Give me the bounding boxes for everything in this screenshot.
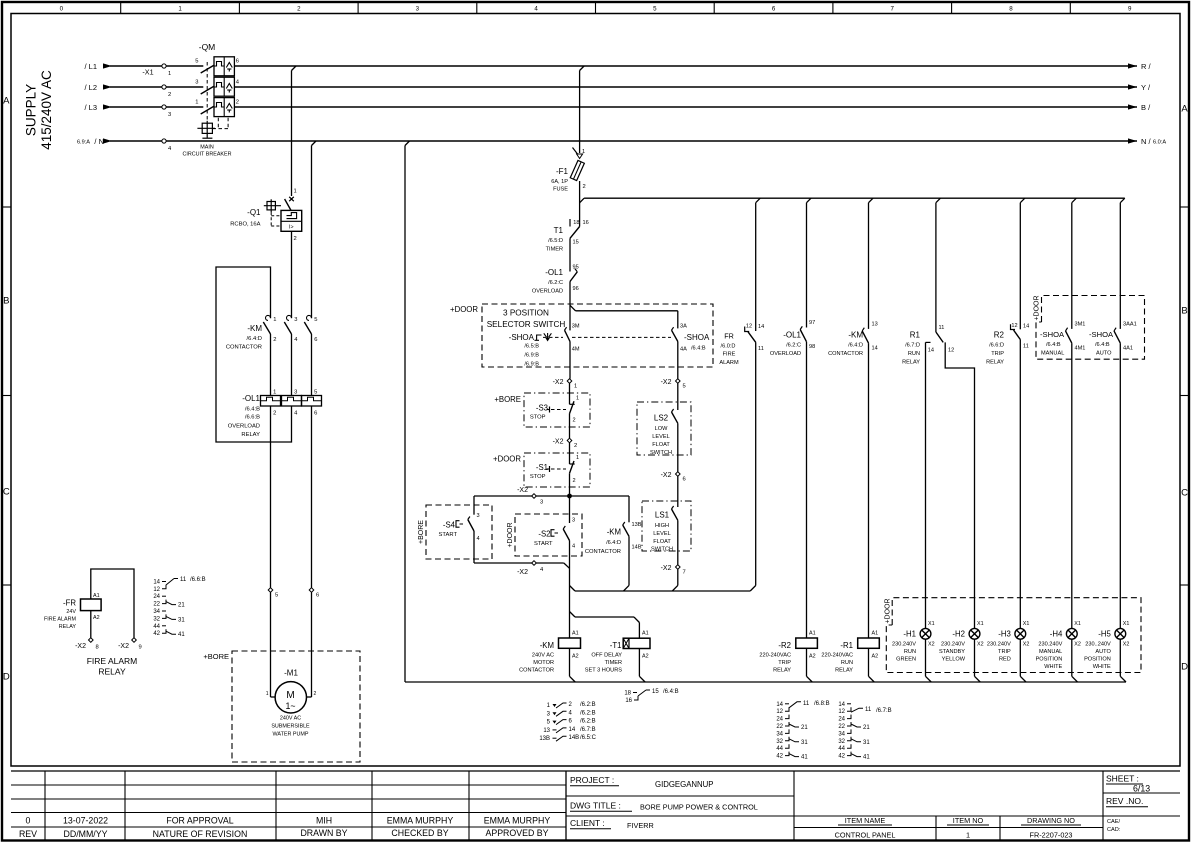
control top bus <box>584 197 1125 199</box>
control bus tap at fuse <box>580 198 585 203</box>
wire L1 <box>110 65 1137 67</box>
svg-text:/ L3: / L3 <box>84 103 97 112</box>
svg-text:230.240V: 230.240V <box>1038 642 1062 648</box>
location box LS1 <box>642 501 691 551</box>
svg-text:/6.4:D: /6.4:D <box>606 540 621 546</box>
svg-text:SWITCH: SWITCH <box>650 450 672 456</box>
svg-text:MIH: MIH <box>316 816 332 826</box>
label T1 timer <box>546 226 564 253</box>
svg-text:CLIENT :: CLIENT : <box>570 818 605 828</box>
svg-text:DRAWN BY: DRAWN BY <box>300 828 347 838</box>
location box +DOOR stop <box>493 453 590 487</box>
svg-text:+BORE: +BORE <box>203 652 229 661</box>
label FIRE ALARM RELAY <box>87 656 138 677</box>
svg-text:1: 1 <box>178 6 182 13</box>
svg-text:3A: 3A <box>680 324 687 330</box>
-R1 contact cross-reference table <box>838 702 891 761</box>
svg-text:X1: X1 <box>1023 621 1030 627</box>
svg-text:+BORE: +BORE <box>418 520 425 544</box>
svg-text:2: 2 <box>574 443 577 449</box>
location box +BORE motor <box>203 651 360 762</box>
svg-text:OVERLOAD: OVERLOAD <box>770 351 801 357</box>
svg-text:14: 14 <box>838 702 845 708</box>
svg-text:5: 5 <box>275 593 278 599</box>
svg-text:11: 11 <box>939 325 945 331</box>
svg-text:CONTACTOR: CONTACTOR <box>519 668 554 674</box>
wire bottom neutral bus <box>405 681 1126 683</box>
svg-text:FLOAT: FLOAT <box>652 442 670 448</box>
svg-text:CAE/: CAE/ <box>1107 819 1121 825</box>
svg-text:LEVEL: LEVEL <box>652 434 669 440</box>
svg-text:415/240V AC: 415/240V AC <box>39 70 54 150</box>
svg-text:STANDBY: STANDBY <box>939 649 965 655</box>
trip relay contact R2 12-14-11 <box>1011 323 1030 628</box>
wire -OL1:2 to motor terminal 5 <box>270 406 272 588</box>
title field ITEM NAME <box>835 816 896 840</box>
svg-text:5: 5 <box>314 390 317 396</box>
wire -X2:1 to -S3 <box>569 383 571 404</box>
indicator lamp -H4 <box>1066 621 1080 682</box>
svg-text:RELAY: RELAY <box>241 432 260 438</box>
bus tap to OL1 column <box>807 198 812 203</box>
selector aux contact -SHOA 3M1-4M1 <box>1066 322 1086 629</box>
svg-text:24: 24 <box>838 717 845 723</box>
overload contact -OL1 97-98 <box>800 320 815 638</box>
svg-text:D: D <box>3 671 10 682</box>
svg-text:-X2: -X2 <box>553 439 564 446</box>
svg-text:/6.4:B: /6.4:B <box>1046 342 1061 348</box>
source arrow / L1 <box>84 62 112 71</box>
svg-text:22: 22 <box>838 724 845 730</box>
svg-text:APPROVED BY: APPROVED BY <box>485 828 548 838</box>
svg-text:-SHOA: -SHOA <box>509 333 535 342</box>
svg-text:N /: N / <box>1141 137 1152 146</box>
svg-text:A2: A2 <box>572 654 579 660</box>
svg-text:1: 1 <box>273 317 276 323</box>
svg-text:POSITION: POSITION <box>1084 657 1111 663</box>
svg-text:2: 2 <box>297 6 301 13</box>
svg-text:LS2: LS2 <box>654 414 669 423</box>
wire L1 to fuse -F1 <box>580 66 585 153</box>
svg-text:2: 2 <box>583 184 586 190</box>
title field DRAWING NO <box>1021 816 1081 840</box>
wire junction to -S2 <box>569 496 571 523</box>
svg-text:SWITCH: SWITCH <box>651 546 673 552</box>
svg-text:X1: X1 <box>1074 621 1081 627</box>
trip relay coil -R2 <box>796 631 818 683</box>
contactor coil -KM <box>559 631 581 683</box>
label -H4 <box>1036 630 1063 671</box>
overload relay -OL1 power block <box>261 390 322 417</box>
svg-text:12: 12 <box>746 324 752 330</box>
svg-text:2: 2 <box>236 100 239 106</box>
wire bus to -KM 13 <box>868 203 870 329</box>
svg-text:MAIN: MAIN <box>200 145 214 151</box>
svg-text:-X1: -X1 <box>142 68 153 77</box>
svg-text:44: 44 <box>776 746 783 752</box>
svg-text:4: 4 <box>477 536 480 542</box>
svg-text:WATER PUMP: WATER PUMP <box>273 732 309 738</box>
svg-text:1~: 1~ <box>285 701 295 711</box>
svg-text:5: 5 <box>683 384 686 390</box>
svg-text:/6.6:B: /6.6:B <box>245 415 260 421</box>
svg-text:2: 2 <box>273 337 276 343</box>
svg-text:34: 34 <box>776 731 783 737</box>
label -H2 <box>939 630 966 663</box>
source arrow / L3 <box>84 103 112 112</box>
label -Q1 RCBO 16A <box>230 208 261 228</box>
svg-text:18: 18 <box>573 220 579 226</box>
svg-text:15: 15 <box>652 689 659 695</box>
svg-text:A: A <box>3 95 10 106</box>
svg-text:AUTO: AUTO <box>1096 351 1112 357</box>
svg-text:-M1: -M1 <box>284 669 298 678</box>
bus tap to R2 column <box>1020 198 1025 203</box>
svg-text:FIRE: FIRE <box>723 352 736 358</box>
wire terminal 6 to motor <box>305 592 316 697</box>
svg-text:2: 2 <box>573 418 576 424</box>
terminal -X2:8 <box>75 638 99 651</box>
label -SHOA manual refs <box>509 333 540 368</box>
location box +BORE start <box>418 505 492 559</box>
svg-text:-OL1: -OL1 <box>545 268 563 277</box>
svg-text:32: 32 <box>838 739 845 745</box>
arrow R / <box>1128 62 1152 71</box>
svg-text:/6.9:B: /6.9:B <box>524 362 539 368</box>
wire terminal 5 to motor <box>266 592 276 697</box>
svg-text:31: 31 <box>178 617 185 623</box>
svg-text:13: 13 <box>543 728 550 734</box>
svg-text:1: 1 <box>576 396 579 402</box>
svg-text:-X2: -X2 <box>661 565 672 572</box>
wire bus to -SHOA manual aux <box>1071 203 1073 329</box>
svg-text:ITEM NAME: ITEM NAME <box>845 816 886 825</box>
svg-text:22: 22 <box>776 724 783 730</box>
svg-text:12: 12 <box>948 348 954 354</box>
terminal -X1:2 <box>162 85 171 98</box>
svg-text:RED: RED <box>999 657 1011 663</box>
selector actuator linkage <box>535 333 672 342</box>
svg-text:14: 14 <box>1023 324 1029 330</box>
svg-text:1: 1 <box>195 100 198 106</box>
svg-text:3: 3 <box>294 390 297 396</box>
svg-text:-KM: -KM <box>247 324 262 333</box>
svg-text:-H3: -H3 <box>998 630 1011 639</box>
svg-text:14: 14 <box>928 348 934 354</box>
svg-text:X2: X2 <box>1123 642 1130 648</box>
wire junction to -S4 <box>473 496 475 515</box>
selector aux contact -SHOA 3AA1-4A1 <box>1114 322 1137 629</box>
svg-text:+DOOR: +DOOR <box>450 305 478 314</box>
wire coil feed split to -T1 <box>570 612 640 639</box>
svg-text:/6.4:D: /6.4:D <box>848 343 863 349</box>
svg-text:14: 14 <box>569 727 576 733</box>
svg-text:6A, 1P: 6A, 1P <box>551 179 568 185</box>
svg-text:A2: A2 <box>642 654 649 660</box>
wire coil feed -KM <box>569 591 571 638</box>
svg-text:2: 2 <box>294 236 297 242</box>
start pushbutton -S2 <box>563 518 575 592</box>
svg-text:12: 12 <box>1011 323 1017 329</box>
source arrow 6.9:A / N <box>77 137 112 146</box>
stop pushbutton -S3 <box>570 396 580 439</box>
svg-text:11: 11 <box>803 701 810 707</box>
svg-text:8: 8 <box>1009 6 1013 13</box>
svg-text:SELECTOR SWITCH: SELECTOR SWITCH <box>487 320 566 329</box>
svg-text:220-240VAC: 220-240VAC <box>821 653 853 659</box>
terminal 5 pump feed <box>268 588 278 599</box>
svg-text:-X2: -X2 <box>553 379 564 386</box>
svg-text:44: 44 <box>838 746 845 752</box>
wire bus to -SHOA auto aux <box>1119 203 1121 329</box>
label -KM contactor power <box>226 324 263 351</box>
svg-text:11: 11 <box>758 346 764 352</box>
svg-text:13B: 13B <box>539 736 550 742</box>
svg-text:/6.2:B: /6.2:B <box>580 710 596 716</box>
svg-text:/6.2:C: /6.2:C <box>548 280 563 286</box>
svg-text:34: 34 <box>838 731 845 737</box>
terminal -X1:1 <box>162 64 171 77</box>
svg-text:GIDGEGANNUP: GIDGEGANNUP <box>655 780 713 789</box>
svg-text:Y /: Y / <box>1141 83 1151 92</box>
svg-text:-X2: -X2 <box>661 472 672 479</box>
svg-text:OFF DELAY: OFF DELAY <box>591 653 622 659</box>
svg-text:MANUAL: MANUAL <box>1041 351 1064 357</box>
svg-text:SET 3 HOURS: SET 3 HOURS <box>585 668 622 674</box>
label MAIN CIRCUIT BREAKER <box>182 145 231 158</box>
label -H1 <box>892 630 916 663</box>
svg-text:HIGH: HIGH <box>655 523 669 529</box>
label -R1 220-240VAC RUN RELAY <box>821 641 853 674</box>
svg-text:-SHOA: -SHOA <box>1089 330 1114 339</box>
svg-text:2: 2 <box>168 92 171 98</box>
svg-text:A: A <box>1181 103 1188 114</box>
svg-text:WHITE: WHITE <box>1093 664 1111 670</box>
svg-text:-X2: -X2 <box>118 643 129 650</box>
-FR contact cross-reference table <box>153 577 205 638</box>
label -F1 6A 1P FUSE <box>551 167 568 193</box>
svg-text:DD/MM/YY: DD/MM/YY <box>64 829 108 839</box>
svg-text:TRIP: TRIP <box>998 649 1011 655</box>
svg-text:FLOAT: FLOAT <box>653 539 671 545</box>
svg-text:+DOOR: +DOOR <box>507 522 514 547</box>
svg-text:RUN: RUN <box>841 660 853 666</box>
svg-text:CHECKED BY: CHECKED BY <box>391 828 448 838</box>
wire junction to -KM aux contact <box>628 496 630 522</box>
wire -S4 to -X2:4 bus <box>474 563 570 568</box>
svg-text:FIRE ALARM: FIRE ALARM <box>44 617 77 623</box>
title field ITEM NO <box>947 816 989 840</box>
float switch LS2 contact <box>672 409 678 472</box>
svg-text:42: 42 <box>776 754 783 760</box>
svg-text:FR-2207-023: FR-2207-023 <box>1030 831 1073 840</box>
location box +DOOR lamps <box>884 598 1141 673</box>
row letters left <box>3 95 10 682</box>
wire L3 <box>110 106 1137 108</box>
svg-text:/6.6:B: /6.6:B <box>190 577 206 583</box>
terminal -X2:2 <box>553 438 578 449</box>
location box +BORE stop <box>494 393 590 427</box>
svg-text:/6.8:B: /6.8:B <box>814 701 830 707</box>
svg-text:X2: X2 <box>1074 642 1081 648</box>
title field DWG TITLE BORE PUMP POWER & CONTROL <box>570 801 758 812</box>
svg-text:34: 34 <box>153 609 160 615</box>
indicator lamp -H1 <box>920 621 934 682</box>
svg-text:-KM: -KM <box>607 528 621 537</box>
svg-text:/6.6:D: /6.6:D <box>989 343 1004 349</box>
wire bus to -OL1 97 <box>806 203 808 328</box>
svg-text:CONTACTOR: CONTACTOR <box>585 549 621 555</box>
revision row 0 <box>26 816 551 826</box>
svg-text:YELLOW: YELLOW <box>942 657 966 663</box>
svg-text:14B: 14B <box>569 735 580 741</box>
svg-text:X2: X2 <box>928 642 935 648</box>
wire L1 to -Q1 <box>292 66 297 196</box>
svg-text:2: 2 <box>314 691 317 697</box>
label -S3 STOP and actuator <box>530 404 566 421</box>
svg-text:I>: I> <box>289 225 293 231</box>
svg-text:FUSE: FUSE <box>553 187 568 193</box>
svg-text:4M: 4M <box>572 347 580 353</box>
terminal -X2:3 <box>517 487 543 506</box>
-QM linkage dashed <box>207 62 228 129</box>
label -FR 24V FIRE ALARM RELAY <box>44 599 77 631</box>
svg-text:32: 32 <box>153 616 160 622</box>
svg-text:12: 12 <box>838 709 845 715</box>
svg-text:220-240VAC: 220-240VAC <box>759 653 791 659</box>
location box +DOOR selector switch <box>450 304 713 367</box>
-KM contact cross-reference table <box>539 702 596 742</box>
svg-text:START: START <box>439 532 458 538</box>
svg-text:RELAY: RELAY <box>59 624 77 630</box>
fire alarm relay contact FR 12-14-11 <box>745 324 765 586</box>
svg-text:/6.9:B: /6.9:B <box>524 353 539 359</box>
svg-text:3: 3 <box>195 80 198 86</box>
node junction start circuit <box>567 494 572 499</box>
svg-text:/ L1: / L1 <box>84 62 97 71</box>
svg-text:230.240V: 230.240V <box>892 642 916 648</box>
terminal -X1:3 <box>162 105 171 118</box>
svg-text:31: 31 <box>863 740 870 746</box>
svg-text:/6.4:B: /6.4:B <box>691 346 706 352</box>
title field SHEET 6/13 <box>1106 774 1150 794</box>
svg-text:4: 4 <box>534 6 538 13</box>
label -OL1 overload contact <box>532 268 564 295</box>
svg-text:6: 6 <box>314 411 317 417</box>
svg-text:RELAY: RELAY <box>902 360 920 366</box>
svg-text:+DOOR: +DOOR <box>493 455 521 464</box>
svg-text:24: 24 <box>153 594 160 600</box>
svg-text:3: 3 <box>540 500 543 506</box>
svg-text:R2: R2 <box>994 331 1005 340</box>
motor -M1 submersible pump <box>275 682 306 713</box>
svg-text:9: 9 <box>139 645 142 651</box>
svg-text:12: 12 <box>776 709 783 715</box>
svg-text:FIRE ALARM: FIRE ALARM <box>87 656 138 666</box>
svg-text:21: 21 <box>801 725 808 731</box>
svg-text:-X2: -X2 <box>517 569 528 576</box>
relay coil -FR <box>81 593 102 621</box>
svg-text:-KM: -KM <box>848 331 863 340</box>
svg-text:+DOOR: +DOOR <box>884 598 891 623</box>
svg-text:STOP: STOP <box>530 415 546 421</box>
svg-text:2: 2 <box>573 478 576 484</box>
svg-text:1: 1 <box>966 831 970 840</box>
stop pushbutton -S1 <box>570 455 580 496</box>
svg-text:41: 41 <box>863 755 870 761</box>
svg-text:16: 16 <box>583 220 589 226</box>
svg-text:MOTOR: MOTOR <box>533 660 554 666</box>
svg-text:/6.2:B: /6.2:B <box>580 719 596 725</box>
svg-text:3M1: 3M1 <box>1075 322 1086 328</box>
svg-text:RCBO, 16A: RCBO, 16A <box>230 222 260 228</box>
svg-text:CONTACTOR: CONTACTOR <box>828 351 863 357</box>
svg-text:11: 11 <box>865 707 872 713</box>
bus tap to R1 column <box>936 198 941 203</box>
svg-text:7: 7 <box>890 6 894 13</box>
svg-text:14: 14 <box>776 702 783 708</box>
svg-text:24V: 24V <box>66 609 76 615</box>
terminal -X2:9 <box>118 638 142 651</box>
label -SHOA manual aux <box>1040 330 1065 357</box>
svg-text:RUN: RUN <box>904 649 916 655</box>
svg-text:EMMA MURPHY: EMMA MURPHY <box>484 816 551 826</box>
run relay coil -R1 <box>858 631 880 683</box>
revision header row <box>19 828 549 839</box>
label 415/240V AC SUPPLY <box>24 70 55 150</box>
contactor aux contact -KM 13B-14B <box>623 522 642 585</box>
svg-text:C: C <box>3 486 10 497</box>
row letters right <box>1181 103 1188 672</box>
bus tap to FR column <box>756 198 761 203</box>
svg-text:R /: R / <box>1141 62 1152 71</box>
-Q1 manual operator <box>264 199 281 212</box>
svg-text:-OL1: -OL1 <box>242 394 260 403</box>
label -KM 240V AC MOTOR CONTACTOR <box>519 641 554 674</box>
svg-text:DWG TITLE :: DWG TITLE : <box>570 801 621 811</box>
svg-text:/6.4:B: /6.4:B <box>663 689 679 695</box>
label -S1 STOP and actuator <box>530 463 566 480</box>
label -R2 220-240VAC TRIP RELAY <box>759 641 791 674</box>
svg-text:-OL1: -OL1 <box>783 331 801 340</box>
label -H5 <box>1084 630 1111 671</box>
svg-text:5: 5 <box>195 59 198 65</box>
svg-text:WHITE: WHITE <box>1044 664 1062 670</box>
label -T1 OFF DELAY TIMER SET 3 HOURS <box>585 641 622 674</box>
svg-text:RUN: RUN <box>908 351 920 357</box>
svg-text:REV: REV <box>19 829 37 839</box>
svg-text:CIRCUIT BREAKER: CIRCUIT BREAKER <box>182 152 231 158</box>
svg-text:1: 1 <box>168 71 171 77</box>
indicator lamp -H2 <box>969 621 983 682</box>
svg-text:-H2: -H2 <box>952 630 965 639</box>
svg-text:REV .NO.: REV .NO. <box>1106 796 1143 806</box>
svg-text:1: 1 <box>294 189 297 195</box>
svg-text:-QM: -QM <box>199 42 216 52</box>
svg-text:3: 3 <box>572 518 575 524</box>
breaker -Q1 <box>281 189 302 319</box>
svg-text:/6.7:D: /6.7:D <box>905 343 920 349</box>
overload contact -OL1 95-96 <box>570 238 579 330</box>
svg-text:8: 8 <box>96 645 99 651</box>
svg-text:SUPPLY: SUPPLY <box>24 84 39 136</box>
svg-text:41: 41 <box>801 755 808 761</box>
wire control output bus <box>570 585 756 591</box>
title field CLIENT FIVERR <box>570 818 654 830</box>
svg-text:X1: X1 <box>1123 621 1130 627</box>
svg-text:18: 18 <box>624 691 631 697</box>
svg-text:/6.5:B: /6.5:B <box>524 344 539 350</box>
